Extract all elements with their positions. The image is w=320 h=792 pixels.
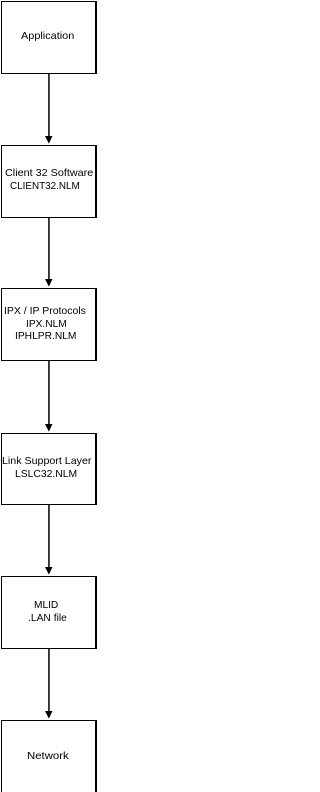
label Network <box>27 750 69 763</box>
box Link Support Layer <box>2 433 97 505</box>
label IPHLPR.NLM <box>15 330 76 343</box>
label IPX.NLM <box>26 318 67 331</box>
label CLIENT32.NLM <box>10 180 80 193</box>
wire arrow5 stem <box>48 649 50 711</box>
label Client 32 Software <box>5 167 93 180</box>
arrow3 head <box>45 424 53 432</box>
box MLID <box>2 576 97 649</box>
arrow1 head <box>45 136 53 144</box>
arrow4 head <box>45 567 53 575</box>
label MLID <box>34 599 58 612</box>
label .LAN file <box>28 612 67 625</box>
box Application <box>2 1 97 74</box>
box Client 32 Software <box>2 145 97 218</box>
wire arrow2 stem <box>48 218 50 279</box>
box IPX / IP Protocols <box>2 288 97 361</box>
label Application <box>21 30 74 43</box>
wire arrow1 stem <box>48 74 50 136</box>
label Link Support Layer <box>2 455 91 468</box>
arrow5 head <box>45 711 53 719</box>
label IPX / IP Protocols <box>4 305 86 318</box>
wire arrow3 stem <box>48 361 50 424</box>
wire arrow4 stem <box>48 505 50 567</box>
arrow2 head <box>45 279 53 287</box>
box Network (clipped at bottom) <box>2 720 97 792</box>
label LSLC32.NLM <box>15 468 77 481</box>
